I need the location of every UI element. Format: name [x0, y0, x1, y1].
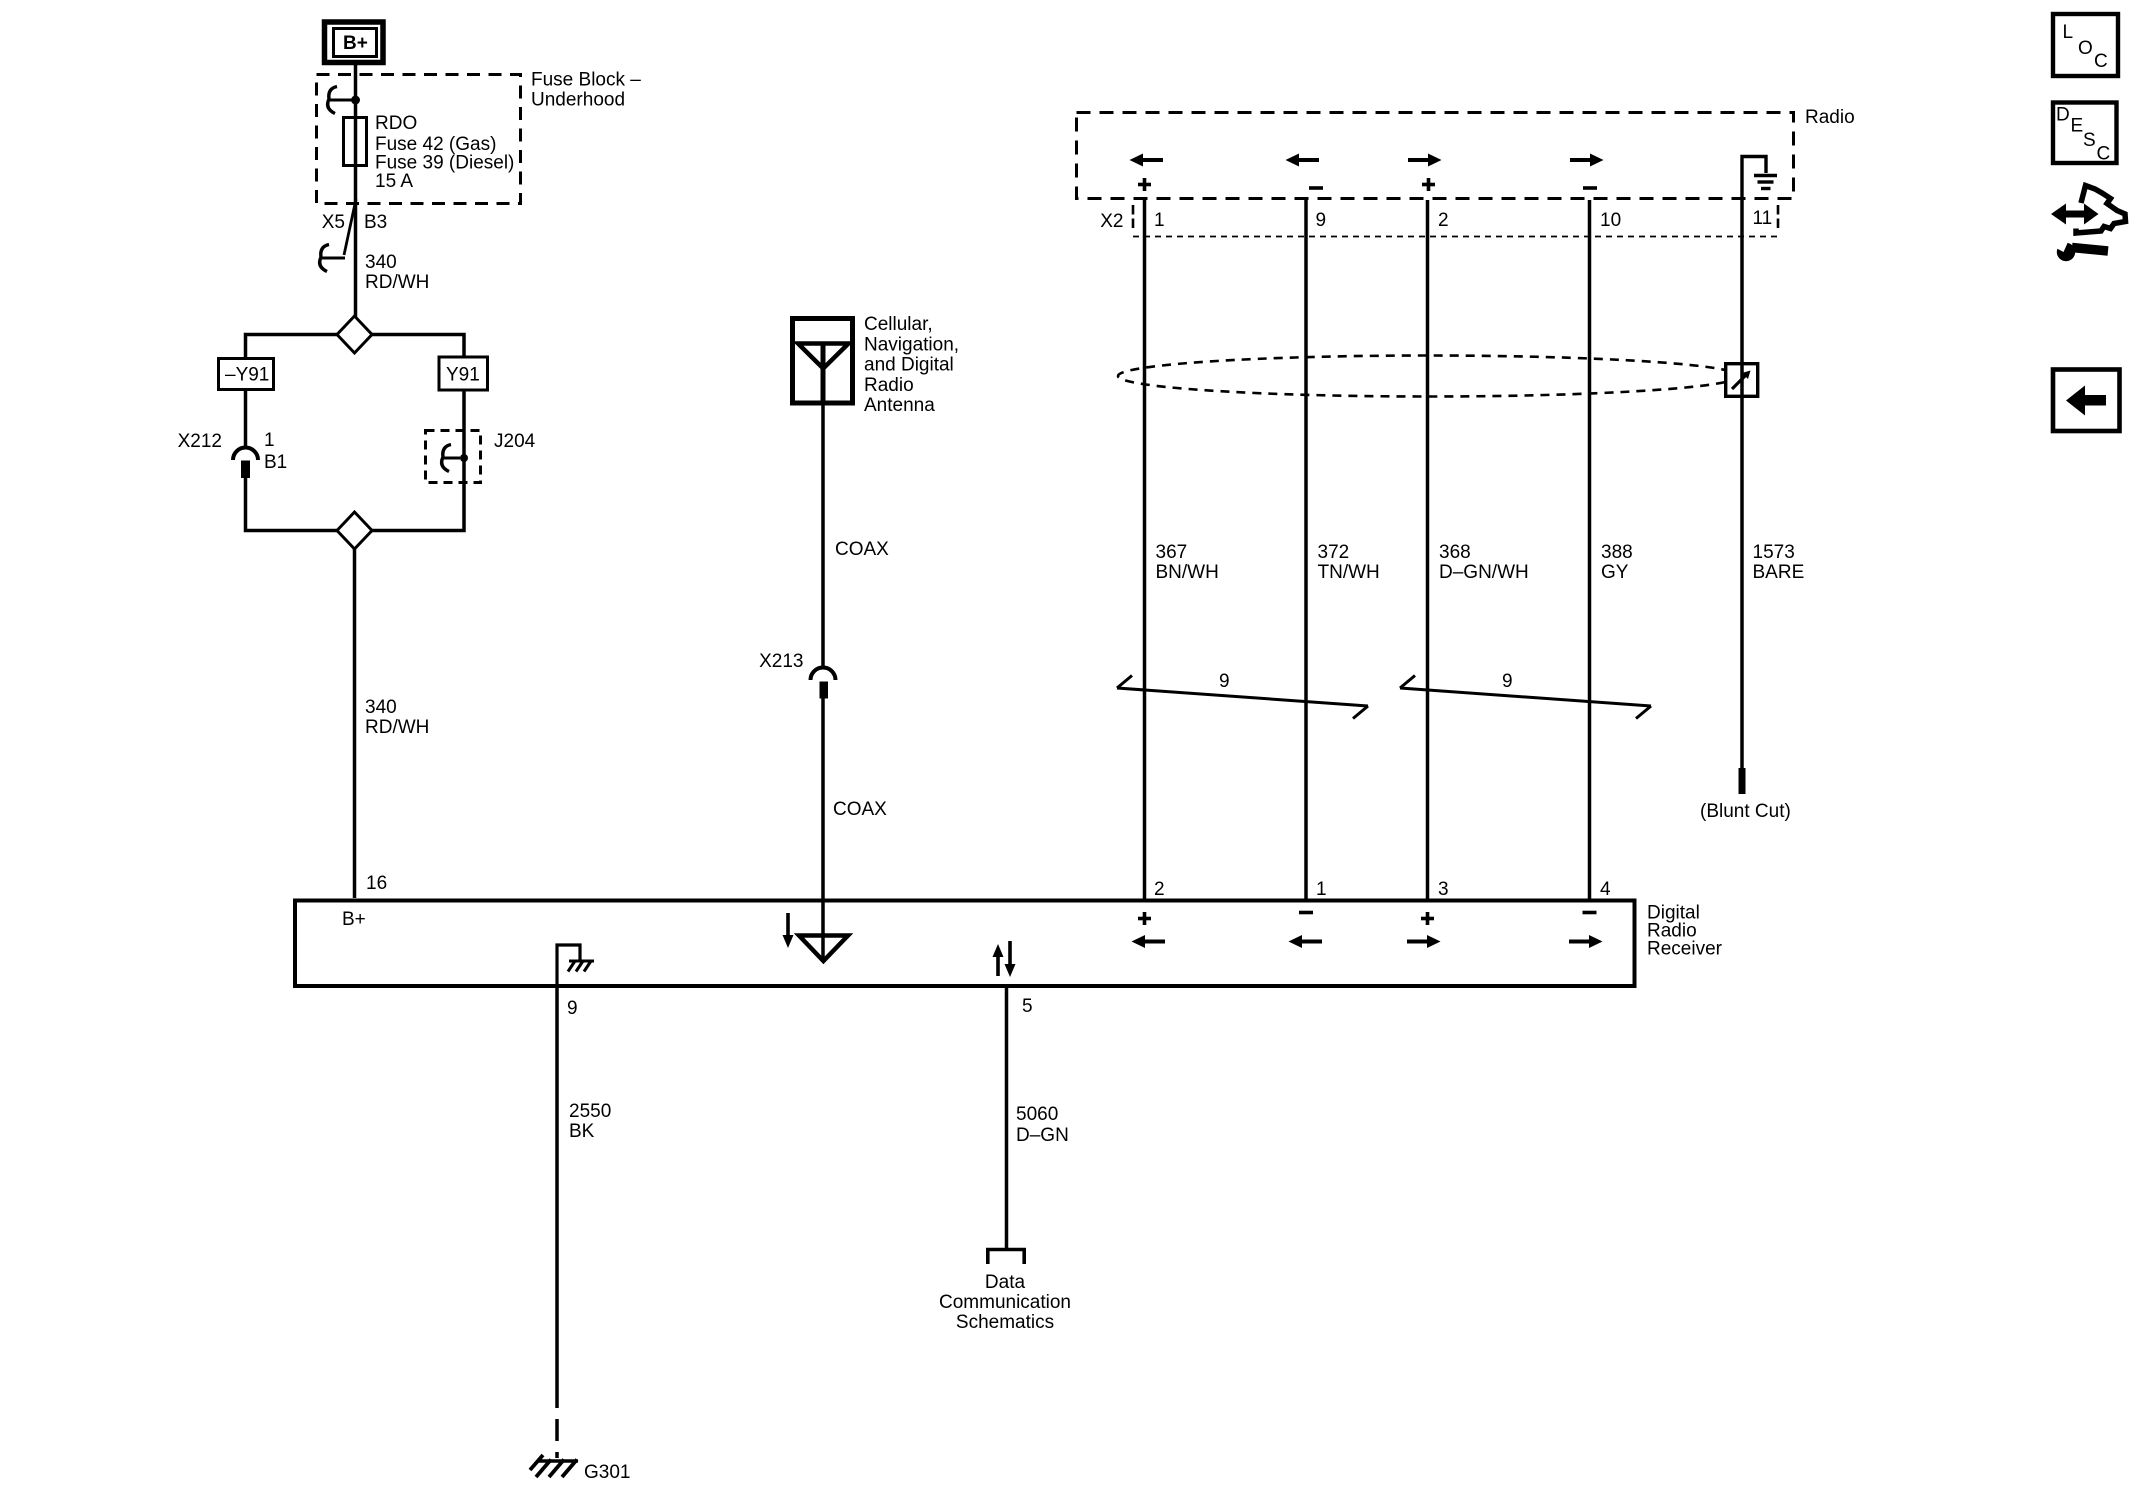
wire fuse to splice [354, 116, 358, 317]
in-line connector J204 dashed box [426, 431, 481, 483]
svg-text:B1: B1 [264, 452, 287, 473]
svg-text:X5: X5 [322, 212, 345, 233]
receiver pin9 internal ground [557, 945, 594, 986]
svg-text:5060: 5060 [1016, 1104, 1058, 1125]
wire splice to -Y91 [246, 335, 338, 358]
svg-text:–Y91: –Y91 [225, 365, 269, 386]
svg-text:C: C [2094, 51, 2108, 72]
svg-text:9: 9 [1502, 671, 1513, 692]
connector X213 [811, 668, 836, 699]
receiver antenna down arrow [783, 913, 794, 948]
svg-text:1: 1 [1316, 879, 1327, 900]
wire 367 BN/WH radio1 to receiver2 [1143, 200, 1147, 899]
svg-text:372: 372 [1318, 542, 1350, 563]
svg-text:X213: X213 [759, 651, 803, 672]
connector X2 strip [1100, 205, 1778, 237]
svg-text:16: 16 [366, 873, 387, 894]
redraw drain wire through box [1740, 363, 1744, 397]
connector X212 terminal [233, 448, 258, 479]
radio pin9 minus [1309, 186, 1323, 190]
svg-text:X212: X212 [178, 431, 222, 452]
ground wire dashed section [555, 1386, 559, 1458]
clip terminal in fuse block [328, 87, 360, 114]
svg-text:G301: G301 [584, 1462, 630, 1483]
antenna box [793, 319, 853, 404]
svg-text:X2: X2 [1100, 211, 1123, 232]
svg-text:11: 11 [1753, 208, 1773, 229]
svg-text:3: 3 [1438, 879, 1449, 900]
svg-text:2: 2 [1438, 210, 1449, 231]
wire -Y91 to X212 [244, 390, 248, 449]
radio earth ground symbol [1754, 176, 1777, 189]
svg-text:Radio: Radio [864, 375, 914, 396]
svg-text:B+: B+ [343, 33, 368, 54]
data wire 5060 D-GN [1005, 988, 1009, 1248]
twisted pair marker A [1117, 676, 1368, 719]
svg-text:RDO: RDO [375, 113, 417, 134]
radio pin11 internal ground wire [1742, 157, 1766, 201]
svg-text:O: O [2078, 38, 2093, 59]
svg-text:367: 367 [1156, 542, 1188, 563]
clip terminal in J204 [442, 445, 468, 472]
svg-text:Navigation,: Navigation, [864, 334, 959, 355]
icon connector-view arrows [2051, 186, 2126, 234]
receiver pin2 arrow left [1132, 935, 1166, 948]
antenna symbol [798, 344, 849, 406]
wire X212 to splice2 [246, 478, 338, 531]
svg-text:Antenna: Antenna [864, 395, 935, 416]
radio pin1 plus [1138, 178, 1151, 191]
component -Y91 box [219, 359, 274, 390]
svg-text:D–GN/WH: D–GN/WH [1439, 562, 1529, 583]
ground wire 2550 BK [555, 988, 559, 1386]
svg-text:9: 9 [1316, 210, 1327, 231]
svg-text:L: L [2063, 22, 2074, 43]
wire 388 GY radio10 to receiver4 [1588, 200, 1592, 899]
fuse block underhood dashed box [317, 75, 521, 204]
svg-text:RD/WH: RD/WH [365, 272, 429, 293]
svg-text:2550: 2550 [569, 1101, 611, 1122]
svg-text:10: 10 [1600, 210, 1621, 231]
svg-text:(Blunt Cut): (Blunt Cut) [1700, 801, 1791, 822]
svg-text:BN/WH: BN/WH [1156, 562, 1219, 583]
svg-text:B3: B3 [364, 212, 387, 233]
svg-text:1: 1 [1154, 210, 1165, 231]
svg-text:J204: J204 [494, 431, 536, 452]
svg-text:Schematics: Schematics [956, 1312, 1054, 1333]
svg-text:D: D [2056, 105, 2070, 126]
wire 368 D-GN/WH radio2 to receiver3 [1426, 200, 1430, 899]
shield connection box [1726, 364, 1758, 397]
fuse RDO 15A [344, 118, 367, 166]
svg-text:BK: BK [569, 1121, 595, 1142]
radio pin1 arrow left [1130, 154, 1164, 167]
svg-text:Receiver: Receiver [1647, 939, 1723, 960]
receiver pin4 minus [1583, 911, 1597, 915]
blunt cut end [1739, 768, 1746, 794]
svg-text:4: 4 [1600, 879, 1611, 900]
radio pin2 plus [1422, 178, 1435, 191]
svg-text:9: 9 [1219, 671, 1230, 692]
svg-text:TN/WH: TN/WH [1318, 562, 1380, 583]
component Y91 box [439, 357, 488, 390]
icon back-arrow box [2053, 370, 2120, 432]
coax wire antenna to X213 [821, 406, 825, 668]
wire splice2 to receiver pin16 [353, 549, 357, 898]
svg-text:Communication: Communication [939, 1292, 1071, 1313]
coax wire X213 to receiver [821, 699, 825, 959]
wire B+ feed to fuse [354, 65, 358, 118]
receiver pin2 plus [1138, 912, 1151, 925]
svg-text:15 A: 15 A [375, 171, 413, 192]
svg-text:388: 388 [1601, 542, 1633, 563]
power symbol B+ box [325, 22, 384, 63]
radio pin9 arrow left [1286, 154, 1320, 167]
receiver pin1 arrow left [1289, 935, 1323, 948]
receiver pin3 plus [1421, 912, 1434, 925]
splice diamond lower [337, 512, 372, 549]
svg-text:Y91: Y91 [446, 365, 480, 386]
twisted pair marker B [1400, 676, 1651, 719]
radio pin10 arrow right [1570, 154, 1604, 167]
svg-text:Radio: Radio [1805, 107, 1855, 128]
receiver antenna triangle [799, 936, 848, 962]
clip terminal at X5 [320, 245, 345, 272]
svg-text:S: S [2083, 130, 2096, 151]
radio pin2 arrow right [1408, 154, 1442, 167]
svg-text:COAX: COAX [833, 799, 887, 820]
connector X5/B3 slash [344, 199, 356, 255]
wire 372 TN/WH radio9 to receiver1 [1304, 200, 1308, 899]
wire splice to Y91 [372, 335, 464, 357]
receiver pin3 arrow right [1407, 935, 1441, 948]
receiver pin4 arrow right [1569, 935, 1603, 948]
icon wrench [2056, 240, 2108, 261]
svg-text:Fuse Block –: Fuse Block – [531, 70, 641, 91]
icon LOC box [2053, 14, 2118, 76]
wire Y91 through J204 to splice2 [372, 390, 464, 531]
receiver pin5 up-down arrows [993, 941, 1016, 977]
svg-text:D–GN: D–GN [1016, 1125, 1069, 1146]
digital radio receiver box [295, 901, 1635, 987]
wire 1573 BARE shield drain [1740, 200, 1744, 770]
svg-text:BARE: BARE [1753, 562, 1805, 583]
svg-text:Data: Data [985, 1272, 1026, 1293]
svg-text:368: 368 [1439, 542, 1471, 563]
radio pin10 minus [1583, 186, 1597, 190]
svg-text:and Digital: and Digital [864, 355, 954, 376]
svg-text:RD/WH: RD/WH [365, 717, 429, 738]
svg-text:E: E [2071, 116, 2084, 137]
svg-text:1573: 1573 [1753, 542, 1795, 563]
icon DESC box [2053, 103, 2117, 165]
svg-text:1: 1 [264, 430, 275, 451]
svg-text:GY: GY [1601, 562, 1629, 583]
svg-text:C: C [2097, 144, 2111, 165]
splice diamond upper [337, 316, 372, 353]
svg-text:Cellular,: Cellular, [864, 314, 933, 335]
ground G301 symbol [530, 1455, 578, 1477]
svg-text:5: 5 [1022, 996, 1033, 1017]
svg-text:9: 9 [567, 998, 578, 1019]
svg-text:2: 2 [1154, 879, 1165, 900]
svg-text:B+: B+ [342, 909, 366, 930]
radio dashed box [1077, 113, 1794, 199]
svg-text:Underhood: Underhood [531, 90, 625, 111]
svg-text:COAX: COAX [835, 539, 889, 560]
off-page connector bracket [986, 1248, 1026, 1264]
svg-text:340: 340 [365, 252, 397, 273]
shield ellipse [1118, 356, 1739, 397]
svg-text:340: 340 [365, 697, 397, 718]
receiver pin1 minus [1299, 911, 1313, 915]
